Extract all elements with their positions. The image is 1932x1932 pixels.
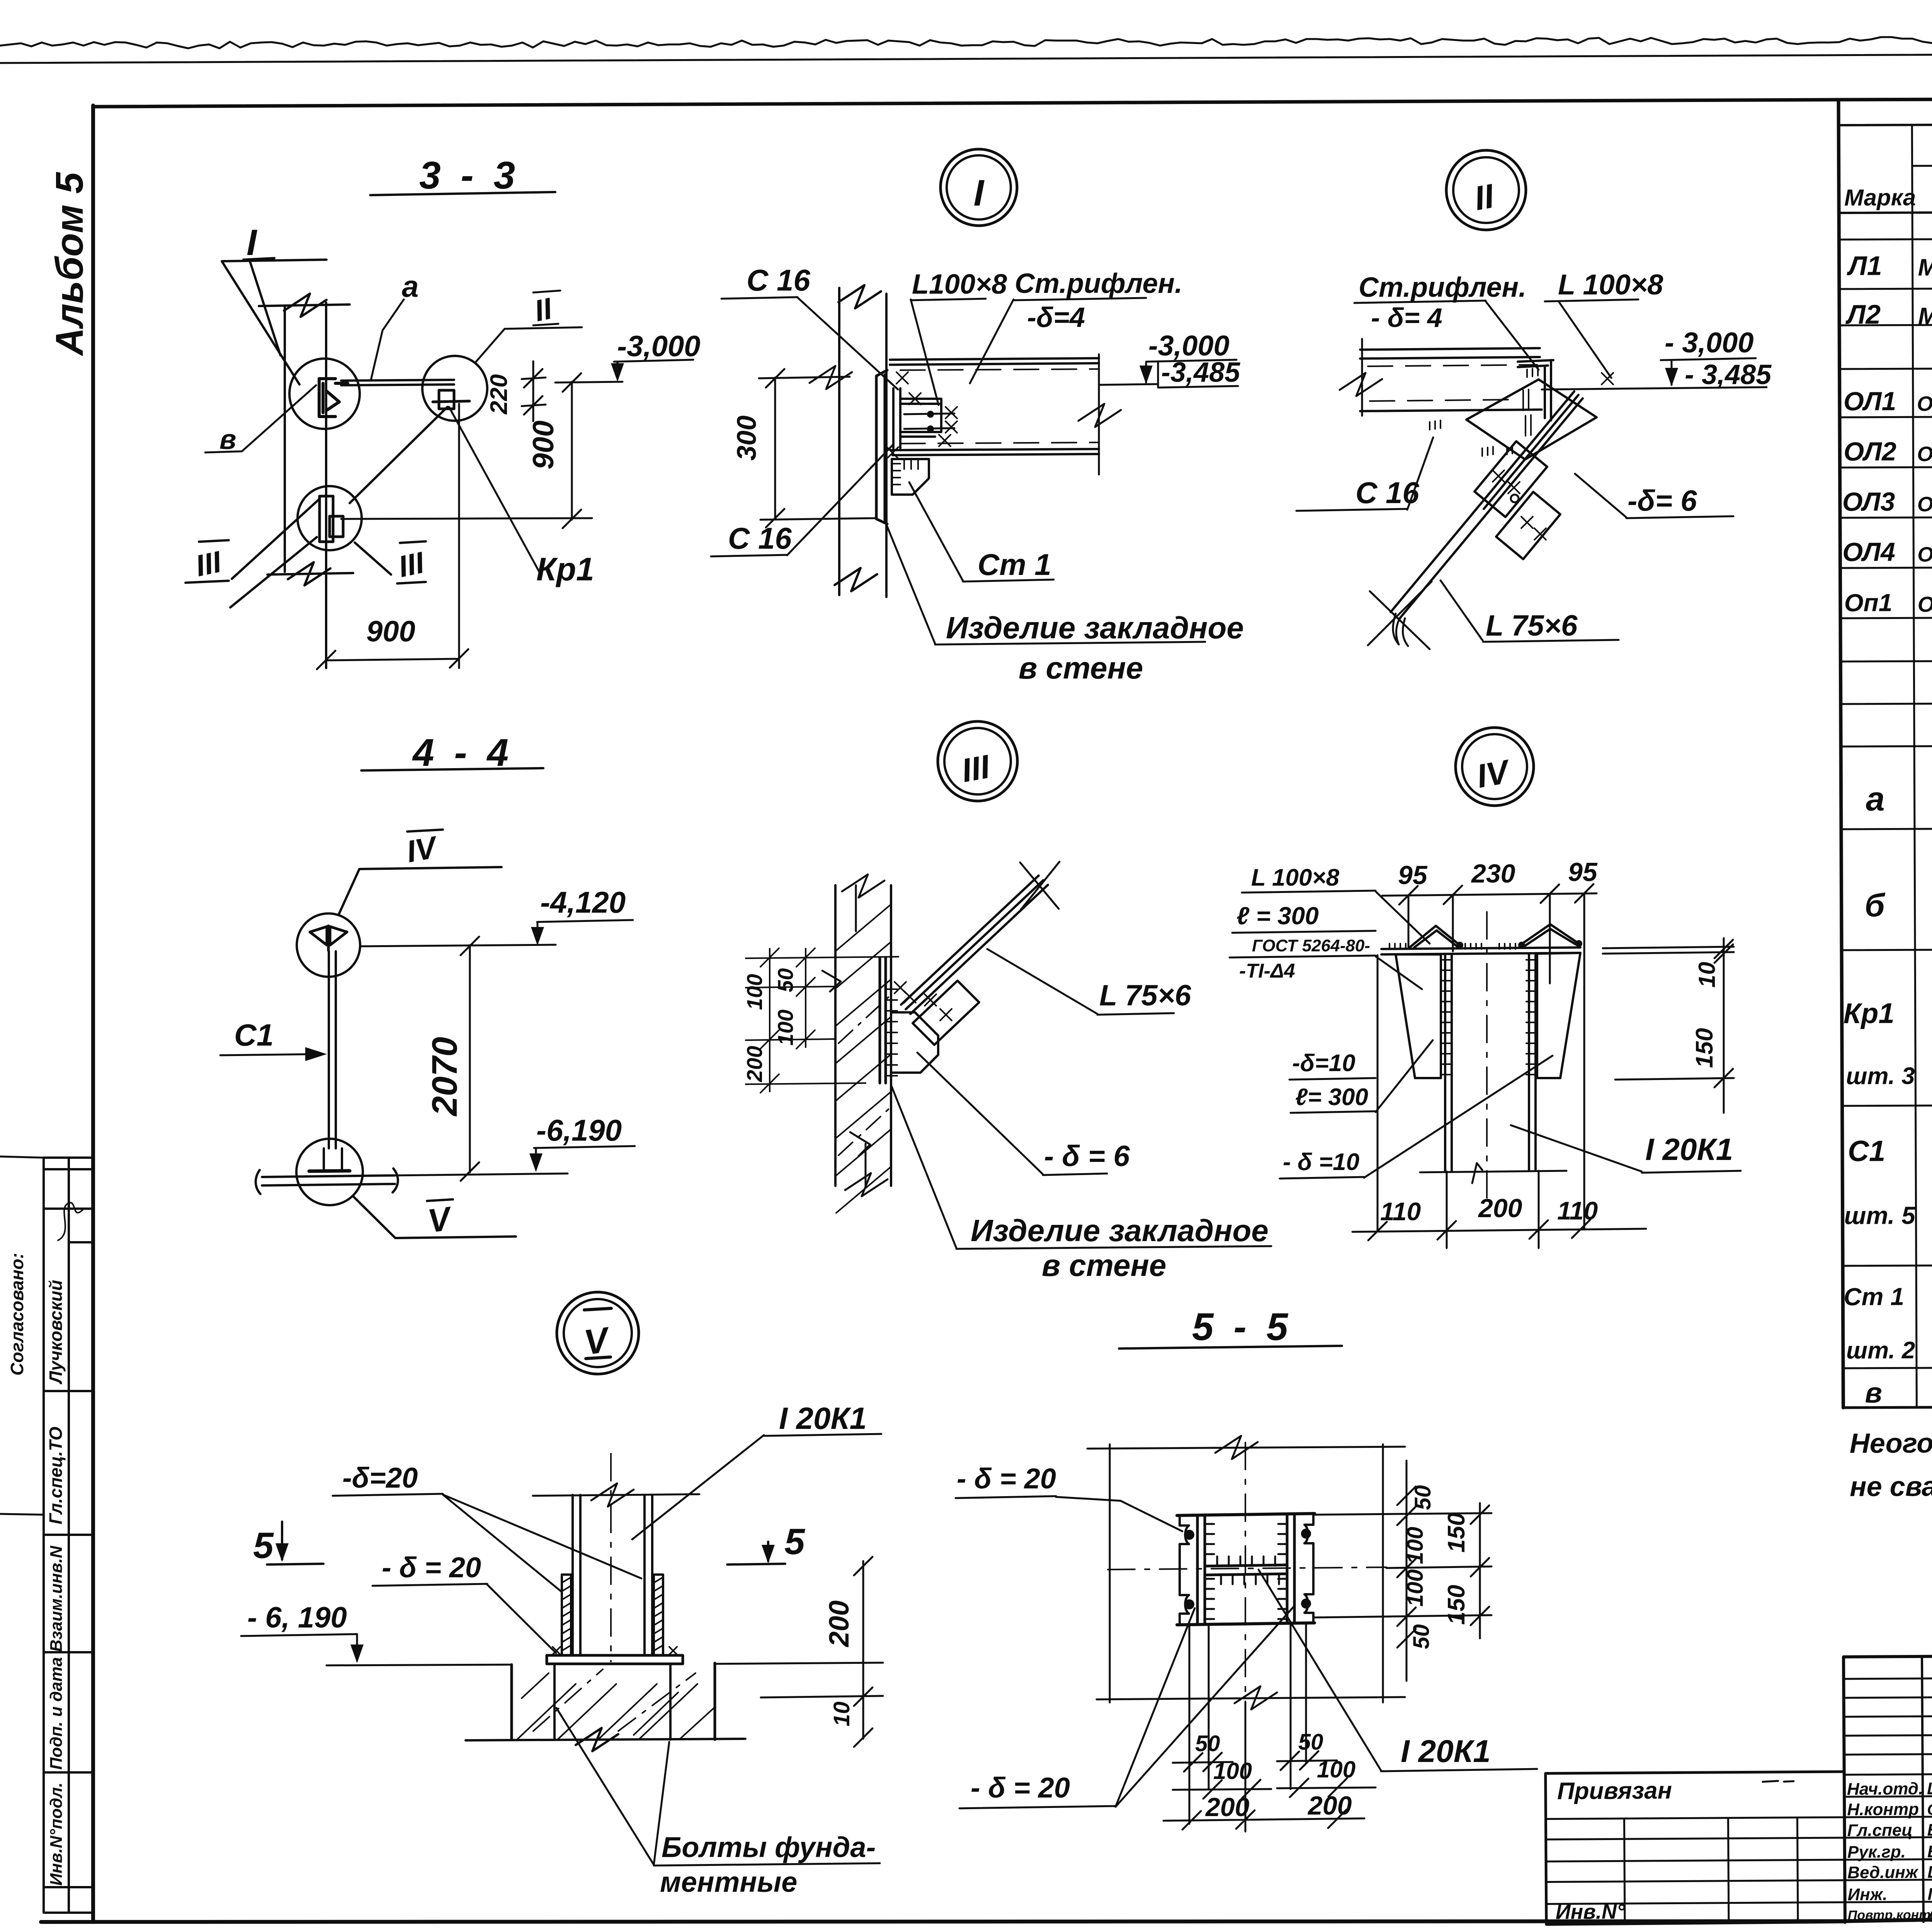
gusset plate — [1466, 379, 1597, 459]
strut L75x6 — [1391, 391, 1583, 619]
svg-text:Н.контр: Н.контр — [1847, 1800, 1919, 1819]
bearing block under strut — [891, 1012, 938, 1073]
svg-text:б: б — [1864, 887, 1885, 923]
svg-text:ОЛ2: ОЛ2 — [1844, 437, 1896, 466]
svg-text:-δ= 6: -δ= 6 — [1628, 485, 1697, 517]
svg-text:110: 110 — [1557, 1196, 1598, 1225]
svg-text:50: 50 — [1409, 1624, 1434, 1649]
central staff table outer — [1844, 1653, 1932, 1922]
horizontal line from bottom node — [341, 518, 592, 519]
svg-text:L 75×6: L 75×6 — [1099, 979, 1191, 1012]
svg-text:а: а — [402, 269, 418, 303]
column top break — [533, 1483, 699, 1507]
frame left border — [91, 105, 95, 1922]
gusset tab III — [913, 981, 979, 1045]
svg-text:150: 150 — [1443, 1585, 1470, 1625]
stamp ticks to paper edge — [0, 1156, 44, 1515]
svg-text:10: 10 — [829, 1701, 854, 1726]
beam with floor plate — [1360, 348, 1542, 411]
svg-text:Ст.рифлен.: Ст.рифлен. — [1359, 272, 1526, 303]
svg-text:Ст 1: Ст 1 — [978, 548, 1051, 582]
svg-text:-δ=10: -δ=10 — [1292, 1050, 1355, 1077]
central staff table columns — [1922, 1655, 1932, 1922]
svg-text:Инж.: Инж. — [1847, 1885, 1887, 1904]
svg-text:Лучковский: Лучковский — [46, 1280, 66, 1384]
svg-text:ментные: ментные — [660, 1866, 797, 1898]
svg-text:I 20К1: I 20К1 — [779, 1401, 867, 1435]
svg-text:900: 900 — [366, 615, 415, 648]
base plate — [547, 1655, 683, 1664]
svg-text:ОГЛМЛХ 45-10.30: ОГЛМЛХ 45-10.30 — [1917, 442, 1932, 466]
I-beam web horizontal — [1205, 1565, 1287, 1575]
svg-text:- δ = 6: - δ = 6 — [1044, 1140, 1130, 1173]
svg-text:L 75×6: L 75×6 — [1486, 609, 1578, 642]
svg-text:в: в — [219, 424, 236, 455]
svg-text:не свариваемых деталей.: не свариваемых деталей. — [1850, 1470, 1932, 1502]
tab plates on strut — [1475, 441, 1560, 559]
svg-text:150: 150 — [1443, 1513, 1470, 1553]
detail I bubble — [940, 149, 1017, 226]
svg-text:ОГЛМЛХ45-10,30: ОГЛМЛХ45-10,30 — [1917, 392, 1932, 416]
svg-text:Подп. и дата: Подп. и дата — [47, 1657, 66, 1770]
extension verticals below — [1189, 1624, 1306, 1832]
frame bottom border — [41, 1906, 1932, 1922]
svg-text:-3,000: -3,000 — [617, 330, 701, 363]
column head symbol — [310, 926, 347, 951]
svg-text:300: 300 — [731, 415, 762, 461]
embedded plate III — [880, 957, 886, 1083]
left margin stamp table — [44, 1158, 92, 1913]
node circle left — [289, 359, 360, 429]
svg-text:I 20К1: I 20К1 — [1401, 1734, 1491, 1769]
svg-text:Ст 1: Ст 1 — [1844, 1282, 1904, 1311]
svg-text:Согласовано:: Согласовано: — [7, 1253, 27, 1376]
wall lines — [835, 285, 886, 597]
svg-text:150: 150 — [1691, 1028, 1718, 1068]
base plate symbol — [309, 1171, 350, 1171]
svg-text:а: а — [1866, 780, 1884, 818]
svg-text:L100×8: L100×8 — [912, 269, 1007, 300]
svg-text:шт. 2: шт. 2 — [1846, 1337, 1915, 1364]
svg-text:МЛХЩ45-30,8: МЛХЩ45-30,8 — [1918, 254, 1932, 281]
svg-text:10: 10 — [1694, 962, 1720, 988]
svg-text:Шейко: Шейко — [1927, 1779, 1932, 1798]
svg-text:5: 5 — [784, 1521, 805, 1562]
connection angle and bolts — [893, 388, 941, 448]
column C1 lines — [329, 951, 336, 1148]
wall with hatching — [835, 885, 891, 1186]
svg-text:- δ = 20: - δ = 20 — [971, 1772, 1070, 1804]
svg-text:-δ=20: -δ=20 — [342, 1462, 418, 1494]
svg-text:Кр1: Кр1 — [536, 551, 594, 587]
svg-text:2070: 2070 — [425, 1037, 464, 1117]
svg-text:Изделие закладное: Изделие закладное — [971, 1213, 1269, 1248]
strut L75x6 III — [901, 876, 1048, 1014]
svg-text:220: 220 — [486, 374, 512, 415]
svg-text:Гл.спец.ТО: Гл.спец.ТО — [46, 1427, 66, 1524]
svg-text:-4,120: -4,120 — [540, 885, 626, 919]
svg-text:50: 50 — [1298, 1730, 1323, 1755]
foundation beam line — [256, 1168, 398, 1194]
node circle bottom — [298, 486, 362, 550]
svg-text:900: 900 — [527, 420, 560, 469]
svg-text:Привязан: Привязан — [1557, 1777, 1672, 1805]
svg-text:шт. 3: шт. 3 — [1846, 1063, 1915, 1090]
svg-text:Марка: Марка — [1844, 184, 1916, 211]
weld ticks 5-5 — [1206, 1524, 1287, 1619]
channel symbol in left circle — [319, 379, 348, 417]
svg-text:- δ = 20: - δ = 20 — [382, 1551, 481, 1583]
svg-text:230: 230 — [1471, 859, 1515, 888]
svg-text:МЛХШ60-30,8: МЛХШ60-30,8 — [1918, 303, 1932, 330]
svg-text:ОГЛНЛХ60-10.30: ОГЛНЛХ60-10.30 — [1917, 492, 1932, 516]
svg-text:в стене: в стене — [1042, 1248, 1166, 1282]
I-beam flanges vertical — [1197, 1515, 1294, 1624]
svg-text:Л1: Л1 — [1846, 251, 1882, 281]
left small table privyazan — [1546, 1772, 1845, 1924]
svg-text:100: 100 — [742, 974, 767, 1010]
column flanges IV — [1445, 954, 1536, 1171]
detail III bubble — [938, 721, 1017, 801]
brace diagonal — [230, 407, 447, 607]
table vertical rules — [1912, 122, 1932, 1407]
svg-text:Неоговоренные швы принимать по: Неоговоренные швы принимать по наименьше… — [1850, 1425, 1932, 1459]
svg-text:95: 95 — [1568, 857, 1598, 887]
svg-text:ОЛ3: ОЛ3 — [1842, 487, 1895, 517]
gussets — [1396, 953, 1580, 1078]
svg-text:Вед.инж: Вед.инж — [1847, 1863, 1919, 1882]
svg-text:Повтр.контр: Повтр.контр — [1848, 1908, 1932, 1923]
weld marks at base — [553, 1647, 677, 1655]
bolt dots — [1184, 1530, 1194, 1540]
detail V bubble — [557, 1292, 639, 1374]
svg-text:Рук.гр.: Рук.гр. — [1847, 1842, 1906, 1862]
svg-text:Инв.N°подл.: Инв.N°подл. — [47, 1782, 66, 1886]
svg-text:5 - 5: 5 - 5 — [1192, 1305, 1293, 1349]
foundation bottom line — [466, 1728, 745, 1751]
top plate IV — [1381, 947, 1580, 954]
svg-text:-ТІ-Δ4: -ТІ-Δ4 — [1239, 960, 1295, 982]
svg-text:- δ =10: - δ =10 — [1283, 1149, 1359, 1175]
centerline IV — [1486, 912, 1488, 1202]
foundation hatch — [518, 1673, 715, 1739]
plate symbols in bottom circle — [320, 496, 343, 542]
svg-text:Изделие закладное: Изделие закладное — [946, 611, 1244, 645]
svg-text:Власенко: Власенко — [1927, 1820, 1932, 1840]
weld x marks — [887, 372, 957, 459]
svg-text:С 16: С 16 — [728, 521, 792, 555]
plate symbol in right circle — [433, 390, 469, 409]
svg-text:шт. 5: шт. 5 — [1844, 1201, 1916, 1230]
svg-text:3 - 3: 3 - 3 — [419, 154, 520, 197]
svg-text:5: 5 — [253, 1525, 274, 1566]
svg-text:Пугачев: Пугачев — [1927, 1884, 1932, 1904]
svg-text:С1: С1 — [1848, 1135, 1885, 1168]
svg-text:Оп1: Оп1 — [1844, 588, 1893, 616]
beam C16 side view — [890, 358, 1099, 455]
svg-text:Взаим.инв.N: Взаим.инв.N — [47, 1545, 66, 1652]
table: vedomost elementov grid — [1838, 122, 1932, 125]
svg-text:- 6, 190: - 6, 190 — [247, 1601, 347, 1634]
svg-text:в: в — [1865, 1377, 1882, 1409]
level line -6190 — [327, 1663, 883, 1665]
svg-text:Гл.спец: Гл.спец — [1847, 1821, 1912, 1840]
svg-text:ℓ= 300: ℓ= 300 — [1295, 1084, 1368, 1111]
svg-text:-6,190: -6,190 — [536, 1113, 622, 1147]
svg-text:ОЛ1: ОЛ1 — [1844, 386, 1896, 416]
centerlines 5-5 — [1108, 1442, 1386, 1702]
svg-text:I 20К1: I 20К1 — [1645, 1132, 1733, 1167]
svg-text:ГОСТ 5264-80-: ГОСТ 5264-80- — [1252, 936, 1370, 955]
weld marks on strut — [1493, 373, 1613, 540]
node circle right — [422, 356, 487, 421]
torn paper top edge — [0, 35, 1932, 48]
central staff table rows — [1844, 1677, 1932, 1902]
svg-text:Боровик: Боровик — [1927, 1842, 1932, 1861]
weld ticks on plate edge — [886, 989, 897, 1076]
svg-text:ℓ = 300: ℓ = 300 — [1236, 902, 1319, 930]
svg-text:С1: С1 — [234, 1018, 274, 1052]
svg-text:- 3,485: - 3,485 — [1685, 359, 1772, 390]
foundation block — [512, 1663, 715, 1740]
anchor bolts — [554, 1664, 670, 1740]
cut line verticals — [285, 303, 326, 668]
svg-text:L 100×8: L 100×8 — [1558, 269, 1663, 301]
column shaft — [573, 1495, 652, 1655]
beam element a (double line) — [341, 380, 454, 385]
svg-text:Абрамова: Абрамова — [1927, 1903, 1932, 1923]
detail IV bubble — [1456, 728, 1534, 806]
svg-text:95: 95 — [1398, 861, 1428, 890]
embedded plate in wall — [876, 370, 887, 524]
svg-text:50: 50 — [1195, 1731, 1220, 1756]
node circle bottom (V) — [296, 1139, 363, 1205]
svg-text:Шмандий: Шмандий — [1927, 1862, 1932, 1882]
svg-text:Альбом 5: Альбом 5 — [48, 172, 91, 357]
column bottom break — [1420, 1163, 1566, 1183]
detail II bubble — [1446, 150, 1526, 230]
signature squiggle — [58, 1203, 83, 1240]
extent box — [1087, 1436, 1405, 1709]
side plates delta20 — [562, 1575, 663, 1655]
weld tick rows — [1430, 368, 1538, 456]
side base plates with notches — [1180, 1515, 1313, 1624]
svg-text:200: 200 — [1478, 1194, 1522, 1223]
svg-text:I: I — [247, 222, 258, 263]
angle L100x8 profile — [1518, 360, 1553, 420]
svg-text:L 100×8: L 100×8 — [1251, 864, 1340, 891]
svg-text:50: 50 — [773, 968, 798, 992]
svg-text:Л2: Л2 — [1845, 299, 1881, 330]
svg-text:200: 200 — [742, 1046, 767, 1082]
support bracket St1 — [892, 459, 929, 495]
svg-text:- 3,000: - 3,000 — [1665, 327, 1753, 359]
svg-text:Кр1: Кр1 — [1844, 997, 1895, 1029]
svg-text:I: I — [974, 172, 985, 214]
beam break right — [1078, 354, 1121, 474]
frame top border — [93, 97, 1932, 107]
svg-text:С 16: С 16 — [747, 263, 810, 297]
svg-text:Инв.N°: Инв.N° — [1556, 1900, 1625, 1923]
svg-text:200: 200 — [824, 1600, 855, 1648]
svg-text:-δ=4: -δ=4 — [1027, 302, 1085, 333]
svg-text:ОЛ4: ОЛ4 — [1842, 537, 1895, 566]
angle chevrons — [1410, 924, 1579, 947]
svg-text:ОГЛМЛХ60-10.30: ОГЛМЛХ60-10.30 — [1917, 543, 1932, 566]
svg-text:в стене: в стене — [1019, 651, 1143, 685]
wall break arrows — [822, 971, 870, 1156]
svg-text:ОГЛМХЭБ-10,9: ОГЛМХЭБ-10,9 — [1918, 592, 1932, 616]
svg-text:- δ= 4: - δ= 4 — [1371, 303, 1442, 333]
strut break end — [1368, 582, 1432, 649]
beam dashed lines — [900, 369, 1097, 444]
svg-text:Ст.рифлен.: Ст.рифлен. — [1015, 268, 1182, 299]
svg-text:Нач.отд.: Нач.отд. — [1847, 1779, 1923, 1799]
svg-text:Болты фунда-: Болты фунда- — [662, 1831, 876, 1863]
svg-text:- δ = 20: - δ = 20 — [957, 1463, 1056, 1495]
svg-text:Сокольская: Сокольская — [1927, 1801, 1932, 1818]
node circle top (IV) — [297, 913, 360, 977]
column centerline — [610, 1454, 612, 1662]
top and bottom cap lines — [1177, 1514, 1315, 1625]
paper top line — [0, 51, 1932, 63]
cut line end ticks with breaks — [259, 294, 353, 585]
